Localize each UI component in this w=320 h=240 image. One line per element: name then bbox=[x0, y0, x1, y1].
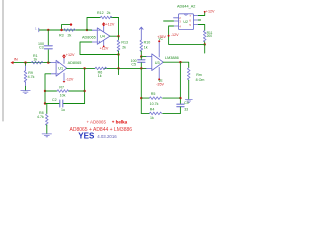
wire stub below rail at R13 column bbox=[118, 68, 120, 74]
node junction R5/C4 bbox=[179, 97, 181, 99]
svg-text:+35V: +35V bbox=[157, 35, 166, 39]
svg-text:+12V: +12V bbox=[100, 46, 109, 50]
wire: U1 feedback column bbox=[84, 68, 86, 103]
ground (Rm) bbox=[185, 100, 192, 103]
svg-text:33: 33 bbox=[184, 107, 188, 111]
node junction C5 top bbox=[140, 55, 142, 57]
U1 V- pin and -12V flag bbox=[63, 73, 65, 81]
resistor R8 bbox=[46, 114, 49, 126]
resistor R9 bbox=[24, 71, 27, 83]
svg-text:C2: C2 bbox=[52, 98, 57, 102]
capacitor C4 bbox=[177, 104, 184, 107]
resistor R4 rail bbox=[141, 112, 149, 114]
svg-text:R4: R4 bbox=[150, 107, 155, 111]
resistor R12 feedback bbox=[87, 18, 100, 31]
resistor R10 bbox=[140, 40, 143, 52]
svg-text:+12V: +12V bbox=[206, 10, 215, 14]
svg-text:2k: 2k bbox=[68, 33, 72, 37]
wire: R8 to ground bbox=[46, 125, 48, 134]
svg-text:-35V: -35V bbox=[156, 83, 164, 87]
svg-text:U2: U2 bbox=[183, 20, 188, 24]
ground (R8) bbox=[42, 134, 51, 137]
U1 V+ pin and +12V flag bbox=[63, 57, 65, 63]
sheet left border bbox=[2, 0, 4, 121]
svg-text:+ belka: + belka bbox=[112, 120, 128, 125]
capacitor C3 bbox=[47, 30, 49, 45]
resistor R3 bbox=[64, 29, 76, 32]
svg-text:R12: R12 bbox=[97, 11, 104, 15]
capacitor C5 bbox=[138, 60, 145, 63]
node junction C5 bottom bbox=[140, 67, 142, 69]
svg-text:1k: 1k bbox=[33, 57, 37, 61]
node junction rail/R13 bbox=[117, 67, 119, 69]
svg-text:-12V: -12V bbox=[66, 78, 74, 82]
svg-text:R10: R10 bbox=[144, 40, 151, 44]
svg-text:1u: 1u bbox=[61, 108, 65, 112]
node junction at stub base bbox=[60, 29, 62, 31]
wire: U1 output rail to U3 -in bbox=[67, 67, 95, 69]
-12V flag on U2 pin4 wire bbox=[168, 35, 170, 37]
power arrow above R10 bbox=[140, 27, 144, 40]
svg-text:AD844_A2: AD844_A2 bbox=[177, 4, 195, 8]
svg-text:1k: 1k bbox=[98, 74, 102, 78]
op-amp U3 bbox=[152, 54, 164, 71]
node junction R7 right bbox=[83, 90, 85, 92]
resistor Rm (load) bbox=[187, 68, 190, 80]
wire: U4 top input from R3 line bbox=[87, 29, 92, 31]
svg-text:IN: IN bbox=[14, 57, 18, 62]
wire: U1 -in routing bbox=[45, 74, 51, 104]
wire: R9 to ground bbox=[25, 82, 27, 87]
U3 V- pin, VE label, -35V flag bbox=[158, 67, 160, 79]
wire: R12 right leg down to U4 out bbox=[118, 18, 120, 37]
U2 left pins bbox=[174, 18, 179, 26]
node junction R7 left bbox=[44, 90, 46, 92]
svg-text:C3: C3 bbox=[39, 45, 44, 49]
node junction at R9 tap bbox=[24, 61, 26, 63]
wire: U2 pin7 to +12V bbox=[198, 12, 204, 16]
U4 V- pin and supply flag bbox=[103, 41, 105, 47]
op-amp U1 bbox=[56, 60, 67, 76]
svg-text:4.03.2016: 4.03.2016 bbox=[97, 134, 117, 139]
power flag IN bbox=[11, 61, 14, 64]
svg-text:2k: 2k bbox=[107, 11, 111, 15]
wire: U2 pin3 long left wire bbox=[164, 20, 174, 22]
node junction C4 column top bbox=[179, 61, 181, 63]
U2 right pins bbox=[194, 16, 199, 25]
svg-text:R5: R5 bbox=[151, 92, 156, 96]
node junction C2 left bbox=[44, 102, 46, 104]
svg-text:R13: R13 bbox=[121, 40, 128, 44]
svg-text:+ AD8065: + AD8065 bbox=[87, 120, 107, 125]
node junction R12 left leg bbox=[86, 29, 88, 31]
wire: R9 drop bbox=[25, 63, 27, 66]
resistor R7 bbox=[45, 90, 57, 92]
svg-text:R7: R7 bbox=[59, 86, 64, 90]
svg-text:C5: C5 bbox=[131, 63, 136, 67]
svg-text:Rm: Rm bbox=[196, 73, 202, 77]
wire: loop left column at C5 bbox=[140, 68, 142, 113]
capacitor C2 bbox=[45, 103, 60, 105]
svg-text:-12V: -12V bbox=[171, 33, 179, 37]
svg-text:AD8065: AD8065 bbox=[82, 35, 96, 39]
IC U2 AD844 bbox=[179, 14, 194, 30]
svg-text:200: 200 bbox=[207, 34, 213, 38]
svg-text:U1: U1 bbox=[58, 67, 63, 71]
svg-text:10k: 10k bbox=[60, 94, 66, 98]
wire: U2 pin4 to -12V and R11 node bbox=[169, 26, 205, 44]
svg-text:10.7k: 10.7k bbox=[150, 102, 159, 106]
wire: C4 column bbox=[179, 62, 181, 104]
ground (R9) bbox=[21, 91, 30, 94]
svg-text:4.7k: 4.7k bbox=[37, 115, 44, 119]
wire stub above R3 bbox=[62, 25, 72, 30]
node dot stub end bbox=[70, 23, 72, 25]
node junction R13 mid bbox=[117, 53, 119, 55]
svg-text:4.7k: 4.7k bbox=[28, 75, 35, 79]
U3 V+ pin, VC label, +35V flag bbox=[158, 41, 160, 57]
svg-text:LM3886: LM3886 bbox=[165, 56, 179, 60]
wire: U3 output line bbox=[163, 62, 188, 68]
node junction U1 out bbox=[83, 67, 85, 69]
op-amp U4 bbox=[97, 28, 110, 44]
svg-text:8 Om: 8 Om bbox=[196, 78, 205, 82]
wire: U4 output to node bbox=[110, 35, 119, 37]
resistor R6 bbox=[95, 67, 107, 70]
node junction U4 out / R13 top bbox=[117, 35, 119, 37]
svg-text:AD8065: AD8065 bbox=[68, 61, 82, 65]
svg-text:+12V: +12V bbox=[106, 23, 115, 27]
svg-text:2k: 2k bbox=[122, 45, 126, 49]
resistor R1 bbox=[31, 61, 43, 64]
svg-text:C4: C4 bbox=[184, 101, 189, 105]
svg-text:R3: R3 bbox=[59, 33, 64, 37]
wire: U4 -in routing loop bbox=[80, 42, 119, 55]
resistor R5 rail bbox=[141, 97, 149, 99]
svg-text:U4: U4 bbox=[100, 35, 105, 39]
svg-text:YES: YES bbox=[78, 132, 95, 141]
wire: C5 top node to U3 +in bbox=[141, 56, 146, 58]
U4 V+ pin and +12V flag bbox=[103, 25, 105, 32]
node junction R11 bottom bbox=[204, 43, 206, 45]
wire: U2 pin5 to R11 bbox=[198, 25, 204, 31]
resistor R13 bbox=[118, 36, 120, 40]
wire: input line IN to U1 +in bbox=[13, 62, 51, 64]
node junction C3 tap on input line bbox=[47, 61, 49, 63]
resistor R11 bbox=[203, 31, 206, 43]
wire stub below R11 node bbox=[204, 44, 206, 53]
wire: U2 pin6 stub bbox=[198, 19, 200, 21]
pin 1 marker at left end of R3 line bbox=[38, 28, 40, 32]
wire: R3 top line bbox=[39, 29, 92, 31]
svg-text:1k: 1k bbox=[150, 116, 154, 120]
node junction C3 top bbox=[47, 29, 49, 31]
svg-text:U3: U3 bbox=[155, 61, 160, 65]
svg-text:1k: 1k bbox=[144, 45, 148, 49]
wire: R8 drop bbox=[46, 104, 48, 114]
svg-text:+12V: +12V bbox=[66, 53, 75, 57]
